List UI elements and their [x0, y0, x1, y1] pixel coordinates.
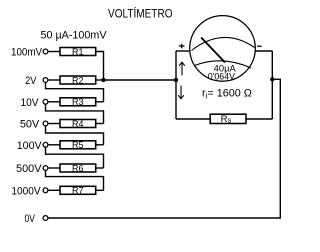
- wire 10V terminal to R3: [48, 101, 60, 103]
- wire 10V tap to R4 right: [46, 104, 104, 123]
- terminal 0V: [43, 216, 48, 221]
- terminal 500V: [43, 166, 48, 171]
- wire left branch vertical: [175, 51, 177, 119]
- node A junction dot: [101, 78, 105, 82]
- node meter plus junction dot: [174, 78, 178, 82]
- svg-text:50 µA-100mV: 50 µA-100mV: [41, 30, 107, 42]
- wire R1 right to node A: [96, 52, 104, 81]
- terminal 1000V: [43, 188, 48, 193]
- meter minus polarity label: [257, 46, 261, 47]
- wire 100V terminal to R5: [48, 144, 60, 146]
- wire right branch vertical: [271, 51, 273, 119]
- wire R7 right stub: [96, 189, 104, 191]
- current arrow down: [178, 86, 184, 99]
- wire 2V tap to R3 right: [46, 82, 104, 102]
- svg-text:2V: 2V: [25, 75, 37, 87]
- resistor R3: [60, 97, 96, 107]
- wire meter minus terminal: [255, 50, 272, 52]
- svg-text:50V: 50V: [20, 119, 40, 131]
- svg-text:0V: 0V: [25, 213, 36, 225]
- current arrow up: [179, 62, 185, 75]
- svg-text:R5: R5: [72, 140, 84, 150]
- wire R5 right stub: [96, 144, 104, 146]
- wire 50V terminal to R4: [48, 123, 60, 125]
- terminal 50V: [43, 121, 48, 126]
- terminal 2V: [43, 78, 48, 83]
- wire R3 right stub: [96, 101, 104, 103]
- resistor Rs: [210, 114, 246, 125]
- svg-text:VOLTÍMETRO: VOLTÍMETRO: [108, 7, 173, 21]
- svg-text:ri= 1600 Ω: ri= 1600 Ω: [202, 88, 252, 101]
- wire 100V tap to R6 right: [46, 147, 104, 168]
- wire 1000V terminal to R7: [48, 189, 60, 191]
- wire 50V tap to R5 right: [46, 126, 104, 145]
- wire 100mV terminal to R1: [48, 51, 60, 53]
- terminal 100mV: [43, 49, 48, 54]
- wire 500V tap to R7 right: [46, 170, 104, 190]
- svg-text:R2: R2: [72, 75, 84, 85]
- svg-text:0'064V: 0'064V: [208, 72, 236, 82]
- svg-text:1000V: 1000V: [11, 185, 41, 197]
- svg-text:R7: R7: [72, 186, 84, 196]
- wire node A to meter plus branch: [104, 79, 177, 81]
- svg-text:R1: R1: [72, 47, 84, 57]
- svg-text:R6: R6: [72, 163, 84, 173]
- svg-text:R4: R4: [72, 119, 84, 129]
- resistor R5: [60, 140, 96, 150]
- wire 500V terminal to R6: [48, 167, 60, 169]
- resistor R2: [60, 75, 96, 85]
- wire meter plus terminal: [176, 50, 190, 52]
- svg-text:500V: 500V: [16, 163, 42, 175]
- resistor R4: [60, 119, 96, 129]
- wire 2V terminal to R2: [48, 79, 60, 81]
- svg-text:100mV: 100mV: [11, 47, 42, 59]
- resistor R6: [60, 163, 96, 173]
- terminal 10V: [43, 99, 48, 104]
- meter plus polarity label: [179, 44, 185, 49]
- svg-text:Rs: Rs: [221, 114, 232, 125]
- meter M1: [190, 16, 256, 82]
- resistor R1: [60, 47, 96, 57]
- svg-text:R3: R3: [72, 97, 84, 107]
- wire R4 right stub: [96, 123, 104, 125]
- resistor R7: [60, 186, 96, 196]
- svg-text:10V: 10V: [21, 97, 39, 109]
- wire R6 right stub: [96, 167, 104, 169]
- terminal 100V: [43, 142, 48, 147]
- wire R2 right to node A: [96, 79, 104, 81]
- wire shunt rail right: [246, 118, 272, 120]
- wire 0V terminal to meter minus node: [48, 79, 280, 218]
- wire shunt rail left: [176, 118, 210, 120]
- svg-text:100V: 100V: [17, 140, 42, 152]
- node meter minus junction dot: [270, 77, 274, 81]
